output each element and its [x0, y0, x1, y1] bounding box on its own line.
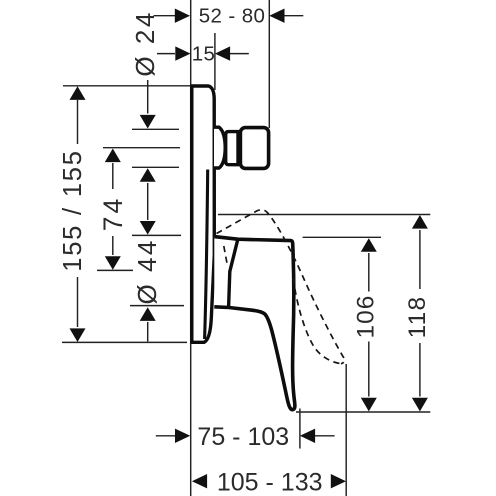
bottom baseline (106/118)	[296, 411, 430, 413]
dim d24 line above text-arrow	[147, 80, 149, 114]
dim 74 line upper segment	[112, 163, 114, 189]
lever handle raised position (dashed) top edge	[217, 210, 345, 364]
svg-text:52 - 80: 52 - 80	[199, 4, 266, 27]
dim d24/d44 shared tail	[147, 183, 149, 220]
solid lever top reference line (106)	[303, 236, 381, 238]
svg-text:106: 106	[352, 295, 379, 339]
handle bottom tick (d44)	[130, 305, 184, 307]
arrow 75-103 right	[300, 429, 315, 443]
spout neck	[226, 132, 238, 165]
lever handle raised position (dashed) inner edge	[293, 278, 341, 364]
svg-text:155 / 155: 155 / 155	[59, 149, 87, 272]
svg-text:118: 118	[404, 296, 431, 339]
arrow d24 up	[140, 168, 156, 182]
lever handle (solid, closed position)	[214, 237, 295, 410]
svg-text:75 - 103: 75 - 103	[197, 423, 289, 451]
dim 155 line lower segment	[77, 277, 79, 327]
dim 52-80 left arrow tail	[154, 15, 176, 17]
arrow d44 up	[140, 307, 156, 321]
spout top tick (d24)	[132, 128, 179, 130]
svg-text:74: 74	[98, 196, 128, 231]
lever tip extension line	[299, 409, 301, 449]
dim 118 line upper segment	[419, 343, 421, 397]
dim 106 line lower segment	[368, 342, 370, 397]
dim 75-103 right arrow tail	[315, 435, 335, 437]
arrow 118 down	[412, 398, 428, 412]
arrow 15 right	[215, 46, 230, 60]
spout end cap	[240, 128, 268, 169]
arrow 75-103 left	[175, 429, 190, 443]
arrow 118 up	[412, 215, 428, 229]
arrow 105-133 right	[331, 474, 346, 488]
dim d44 bottom tail	[147, 322, 149, 342]
dim 118 line upper segment	[419, 230, 421, 289]
arrow 74 up	[105, 149, 121, 163]
dim 52-80 right arrow tail	[284, 15, 303, 17]
dim 15 right arrow tail	[230, 53, 249, 55]
dashed-lever tip extension line	[345, 364, 347, 496]
svg-text:105 - 133: 105 - 133	[217, 469, 323, 496]
svg-text:Ø 44: Ø 44	[132, 238, 162, 304]
arrow 52-80 left	[175, 9, 190, 23]
spout centerline tick	[103, 147, 180, 149]
arrow 155 top	[70, 86, 86, 100]
arrow 52-80 right	[269, 9, 284, 23]
escutcheon plate (side view)	[192, 86, 215, 342]
plate front inner contour	[205, 170, 208, 340]
wall extension line	[190, 0, 192, 496]
plate front extension line	[214, 33, 216, 90]
arrow 105-133 left	[192, 474, 207, 488]
arrow 155 bottom	[70, 328, 86, 342]
dim 74 line lower segment	[112, 236, 114, 255]
svg-text:15: 15	[192, 42, 216, 65]
dim 75-103 left arrow tail	[156, 435, 176, 437]
spout escutcheon bulge	[214, 127, 225, 168]
dim 15 left arrow tail	[157, 53, 175, 55]
arrow 74 down	[105, 256, 121, 270]
svg-text:Ø 24: Ø 24	[130, 10, 160, 76]
plate top reference line	[63, 85, 190, 87]
handle pivot tick (74)	[97, 269, 133, 271]
dim 106 line upper segment	[368, 253, 370, 292]
spout bottom tick (d24)	[132, 166, 179, 168]
plate bottom reference line	[62, 341, 187, 343]
arrow 106 up	[361, 238, 377, 252]
arrow d44 down	[140, 221, 156, 235]
arrow 106 down	[361, 398, 377, 412]
dashed lever top reference line (118)	[218, 214, 430, 216]
handle top tick (d44)	[132, 234, 181, 236]
spout tip extension line	[268, 0, 270, 128]
lever base front edge	[229, 239, 238, 307]
lever base raised position (dashed) front edge	[224, 246, 228, 266]
arrow d24 down	[140, 115, 156, 129]
dim 155 line upper segment	[77, 100, 79, 144]
arrow 15 left	[175, 46, 190, 60]
